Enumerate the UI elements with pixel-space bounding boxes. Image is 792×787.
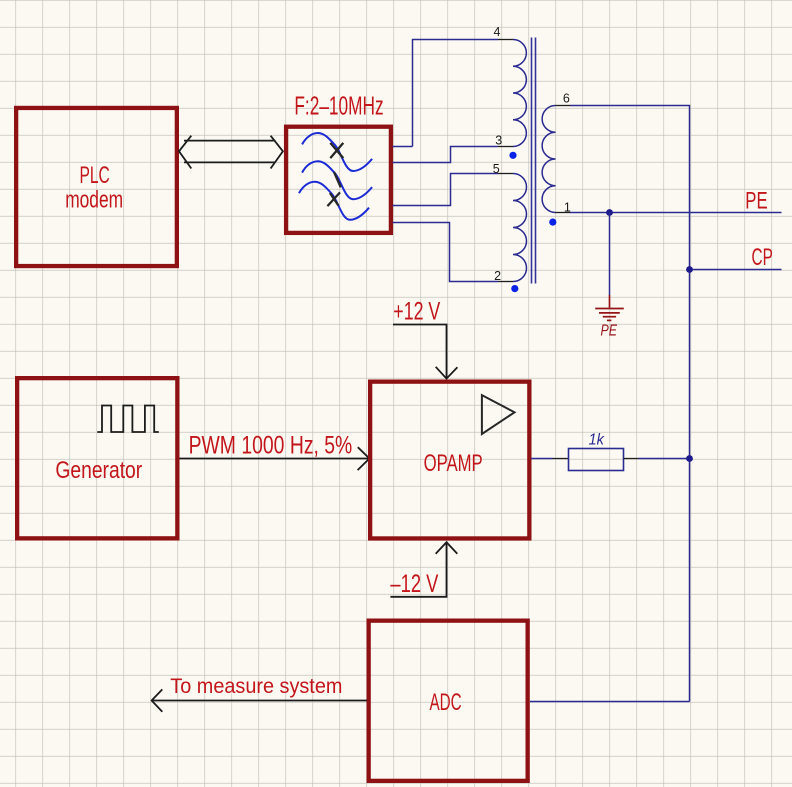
wire opamp output bbox=[531, 458, 553, 460]
ground symbol PE bbox=[595, 295, 624, 320]
resistor R1 pin right bbox=[624, 458, 639, 460]
bus double arrow between PLC modem and filter bbox=[179, 136, 283, 169]
OPAMP box U3 bbox=[370, 382, 529, 539]
pin 4 bbox=[498, 39, 513, 41]
svg-text:PWM 1000 Hz, 5%: PWM 1000 Hz, 5% bbox=[189, 432, 353, 460]
wire filter pin3 to terminal 5 bbox=[393, 174, 499, 206]
filter wave 3 bbox=[299, 182, 369, 220]
svg-text:Generator: Generator bbox=[55, 457, 142, 484]
transformer T1 primary winding top (4-3) bbox=[513, 40, 526, 147]
polarity dot near pin 2 bbox=[511, 285, 518, 292]
resistor R1 pin left bbox=[553, 458, 569, 460]
Generator box U2 bbox=[17, 378, 177, 538]
+12 V supply arrow bbox=[393, 325, 457, 379]
pin 1 bbox=[556, 212, 571, 214]
svg-text:1k: 1k bbox=[589, 432, 605, 449]
pin 3 bbox=[498, 146, 513, 148]
junction at CP bbox=[686, 266, 693, 273]
wire to ground bbox=[609, 213, 611, 296]
PLC modem box U1 bbox=[16, 108, 177, 266]
pin 5 bbox=[498, 173, 513, 175]
polarity dot near pin 3 bbox=[509, 152, 516, 159]
svg-text:CP: CP bbox=[752, 244, 773, 271]
wire CP bbox=[690, 269, 782, 271]
svg-text:+12 V: +12 V bbox=[393, 297, 440, 325]
wire filter pin4 to terminal 2 bbox=[393, 223, 499, 282]
square wave icon bbox=[97, 406, 159, 433]
svg-text:ADC: ADC bbox=[430, 689, 462, 716]
wire filter pin1 to transformer terminal 4 bbox=[393, 40, 499, 147]
wire terminal 1 to PE bbox=[570, 212, 782, 214]
junction at ground tap bbox=[606, 209, 613, 216]
PWM arrow bbox=[180, 447, 370, 470]
slash on wave 2 bbox=[334, 172, 341, 187]
wire terminal 6 to right rail bbox=[570, 106, 690, 702]
svg-text:4: 4 bbox=[494, 25, 501, 39]
X mark on wave 1 bbox=[330, 143, 343, 158]
svg-text:5: 5 bbox=[493, 162, 500, 176]
filter wave 1 bbox=[302, 133, 372, 171]
svg-text:6: 6 bbox=[563, 92, 570, 106]
PLC modem label bbox=[65, 162, 123, 214]
pin 6 bbox=[556, 105, 571, 107]
junction at resistor rail bbox=[686, 455, 693, 462]
polarity dot near pin 1 bbox=[549, 219, 556, 226]
pin 2 bbox=[498, 281, 513, 283]
wire ADC to rail bbox=[530, 701, 690, 703]
svg-text:PE: PE bbox=[601, 323, 618, 340]
filter wave 2 bbox=[302, 161, 372, 199]
svg-text:2: 2 bbox=[494, 269, 501, 283]
svg-text:OPAMP: OPAMP bbox=[424, 450, 483, 477]
transformer T1 primary winding bottom (5-2) bbox=[513, 174, 527, 282]
svg-text:1: 1 bbox=[564, 200, 571, 214]
svg-text:modem: modem bbox=[65, 186, 123, 213]
X mark on wave 3 bbox=[327, 192, 340, 206]
filter F1 box bbox=[286, 127, 391, 233]
transformer core bbox=[532, 38, 536, 284]
svg-text:–12 V: –12 V bbox=[390, 570, 438, 598]
wire resistor to rail bbox=[639, 458, 690, 460]
svg-text:PLC: PLC bbox=[80, 162, 110, 189]
ADC box U4 bbox=[369, 621, 528, 781]
svg-text:3: 3 bbox=[495, 134, 502, 148]
transformer T1 secondary winding (6-1) bbox=[542, 106, 555, 213]
svg-text:F:2–10MHz: F:2–10MHz bbox=[294, 93, 383, 121]
svg-text:To measure system: To measure system bbox=[170, 675, 342, 698]
wire filter pin2 to terminal 3 bbox=[393, 147, 499, 163]
To measure system arrow bbox=[152, 689, 367, 711]
resistor R1 body bbox=[569, 449, 624, 471]
svg-text:PE: PE bbox=[745, 188, 767, 215]
op-amp triangle bbox=[482, 395, 515, 434]
-12 V supply arrow bbox=[390, 542, 457, 597]
